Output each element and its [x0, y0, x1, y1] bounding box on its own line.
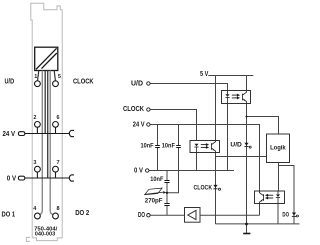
ground symbol bar — [243, 233, 250, 235]
DO output line — [150, 214, 259, 216]
svg-text:5 V: 5 V — [200, 69, 208, 78]
svg-text:DO: DO — [282, 212, 289, 219]
junction dot opto1 output — [246, 116, 248, 118]
0V cage clamp symbol — [69, 175, 74, 181]
wire from display to terminal 4 (DO1) — [40, 71, 42, 215]
wire capacitor C3 0V to node A — [166, 171, 168, 193]
U/D signal flag symbol — [244, 143, 251, 148]
5V rail — [208, 75, 253, 77]
terminal 2 (24V) — [35, 122, 41, 128]
svg-text:0 V: 0 V — [7, 174, 16, 183]
output driver amplifier box (left-pointing triangle) — [185, 208, 201, 223]
DO output node circle — [147, 214, 150, 217]
wire U/D input to opto1 LED anode — [150, 84, 227, 91]
optocoupler U2 phototransistor — [211, 141, 215, 153]
junction dot node A — [166, 192, 168, 194]
wire opto2 emitter down to ground rail — [215, 153, 217, 225]
terminal 6 (24V) — [53, 122, 59, 128]
svg-text:8: 8 — [57, 206, 60, 212]
terminal 8 (DO2) — [53, 213, 59, 219]
optocoupler U1 coupling arrows — [232, 94, 240, 100]
wire 24V input to opto3 collector — [150, 125, 259, 192]
wire capacitor C2 24V to 0V and to node A — [167, 125, 179, 193]
24V supply connector symbol — [18, 132, 24, 136]
I/O module housing outline (side view) — [31, 3, 62, 240]
DO signal flag symbol — [292, 213, 299, 218]
capacitor C2 10nF plates — [176, 146, 181, 148]
svg-text:2: 2 — [33, 115, 36, 121]
svg-text:7: 7 — [57, 160, 60, 166]
optocoupler U1 phototransistor — [242, 91, 246, 104]
optocoupler U2 coupling arrows — [201, 143, 209, 149]
svg-text:U/D: U/D — [131, 79, 144, 88]
stem terminal 2 to 24V wire — [36, 127, 38, 133]
optocoupler U3 LED — [276, 191, 280, 204]
svg-text:DO: DO — [138, 210, 145, 219]
24V input node circle — [147, 123, 150, 126]
wire CLOCK input to opto2 LED anode — [150, 110, 196, 141]
wire opto3 LED cathode to ground rail — [277, 204, 279, 225]
capacitor C3 10nF plates — [164, 181, 169, 183]
wire from display to 24V row — [44, 71, 46, 134]
svg-text:10nF: 10nF — [162, 142, 175, 149]
optocoupler U3 coupling arrows (point left) — [265, 194, 273, 200]
wire from display to 0V row — [47, 71, 49, 179]
wire from display to terminal 8 (DO2) — [50, 71, 52, 215]
wire opto2 LED cathode to 0V — [196, 153, 198, 171]
svg-text:CLOCK: CLOCK — [73, 76, 94, 85]
wire opto1 emitter down to ground rail — [246, 104, 248, 225]
svg-text:24 V: 24 V — [3, 129, 16, 138]
wire opto2 output to Logik left pin — [216, 156, 267, 158]
terminal 1 (U/D) — [35, 81, 41, 87]
svg-text:6: 6 — [57, 115, 60, 121]
U/D input node circle — [147, 82, 150, 85]
junction dot ground rail — [245, 223, 248, 226]
wire stem to terminal 1 — [38, 71, 39, 81]
ground stub — [246, 224, 248, 233]
0V input line — [149, 170, 234, 172]
svg-text:5: 5 — [58, 74, 61, 80]
Logik block U4 — [267, 134, 290, 163]
0V input node circle — [146, 169, 149, 172]
0V supply connector symbol — [18, 176, 24, 180]
svg-text:0 V: 0 V — [134, 166, 143, 175]
terminal 5 (CLOCK) — [53, 81, 59, 87]
svg-text:CLOCK: CLOCK — [123, 104, 144, 113]
svg-text:CLOCK: CLOCK — [194, 184, 213, 191]
optocoupler U1 box (U/D) — [222, 91, 251, 104]
wire 5V rail to opto2 collector — [215, 76, 217, 141]
svg-text:U/D: U/D — [5, 76, 15, 85]
capacitor C4 270pF plates — [164, 204, 169, 206]
svg-text:10nF: 10nF — [150, 176, 163, 183]
svg-text:24 V: 24 V — [133, 119, 145, 128]
terminal 3 (0V) — [35, 166, 41, 172]
sawtooth/slope generator symbol — [145, 188, 167, 195]
terminal 7 (0V) — [53, 166, 59, 172]
wire stem to terminal 5 — [54, 71, 55, 81]
ground rail — [216, 223, 300, 225]
wire 5V rail to opto1 collector — [246, 76, 248, 91]
svg-text:DO 1: DO 1 — [2, 210, 16, 219]
24V cage clamp symbol — [69, 130, 74, 136]
capacitor C1 10nF plates — [155, 146, 160, 148]
optocoupler U1 LED — [225, 91, 229, 104]
wire Logik bottom branch to DO flag line — [279, 166, 295, 225]
svg-text:10nF: 10nF — [141, 142, 154, 149]
24V field wire — [25, 133, 69, 135]
optocoupler U2 box (CLOCK) — [190, 141, 220, 153]
housing bottom-left latch tab — [26, 237, 30, 241]
CLOCK input node circle — [147, 108, 150, 111]
stem terminal 6 to 24V wire — [55, 127, 57, 133]
wire opto1 LED cathode to 0V — [227, 104, 229, 171]
CLOCK signal flag symbol — [213, 185, 220, 190]
wire opto1 output branch to Logik top pin — [247, 117, 279, 135]
wire capacitor C1 24V to 0V — [157, 125, 159, 171]
function/status display square with diagonal lines — [35, 47, 58, 70]
svg-text:040-003: 040-003 — [35, 231, 56, 237]
optocoupler U3 phototransistor (mirrored) — [260, 191, 264, 204]
0V field wire — [25, 177, 69, 179]
stem terminal 3 to 0V wire — [36, 172, 38, 178]
svg-text:1: 1 — [34, 74, 37, 80]
optocoupler U2 LED — [194, 144, 198, 153]
terminal 4 (DO1) — [35, 213, 41, 219]
optocoupler U3 box (DO, mirrored) — [255, 191, 285, 204]
svg-text:3: 3 — [33, 160, 36, 166]
svg-text:DO 2: DO 2 — [75, 208, 89, 217]
wire opto3 emitter to DO line — [259, 204, 261, 216]
wire capacitor C4 node A to DO line — [166, 193, 168, 215]
svg-text:U/D: U/D — [230, 142, 242, 149]
svg-text:270pF: 270pF — [145, 198, 163, 205]
stem terminal 7 to 0V wire — [55, 172, 57, 178]
svg-text:Logik: Logik — [270, 145, 286, 152]
wire Logik bottom pin to opto3 LED anode — [278, 163, 280, 192]
